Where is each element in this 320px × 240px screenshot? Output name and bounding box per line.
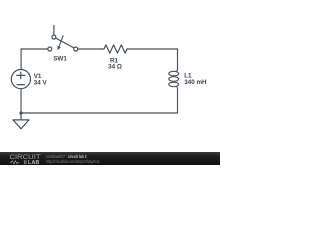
svg-text:340 mH: 340 mH bbox=[184, 79, 207, 86]
svg-text:LAB: LAB bbox=[28, 161, 40, 165]
switch SW1 bbox=[48, 26, 78, 51]
wire source bottom to ground node bbox=[20, 89, 22, 113]
watermark bar bbox=[0, 152, 220, 165]
wire right vertical lower bbox=[177, 89, 179, 113]
svg-text:34 Ω: 34 Ω bbox=[108, 64, 122, 71]
svg-text:SW1: SW1 bbox=[53, 56, 67, 63]
wire bottom bbox=[21, 112, 178, 114]
CircuitLab logo bbox=[0, 151, 44, 165]
watermark text bbox=[46, 154, 100, 164]
ground bbox=[13, 113, 29, 129]
svg-text:34 V: 34 V bbox=[34, 79, 48, 86]
voltage source V1 bbox=[11, 70, 30, 89]
inductor L1 bbox=[169, 68, 179, 89]
wire top-left corner to switch bbox=[21, 48, 48, 50]
wire left vertical bbox=[20, 49, 22, 69]
wire resistor to top-right corner bbox=[127, 48, 178, 50]
resistor R1 bbox=[104, 45, 127, 53]
node junction dot bbox=[19, 111, 22, 114]
wire switch to resistor bbox=[78, 48, 104, 50]
wire right vertical upper bbox=[177, 49, 179, 70]
